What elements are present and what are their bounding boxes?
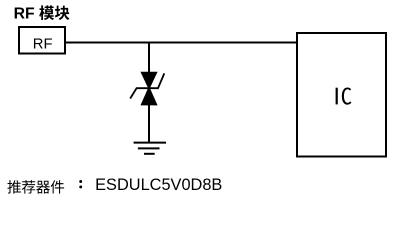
svg-text:RF: RF bbox=[14, 6, 35, 23]
svg-text:RF: RF bbox=[33, 36, 53, 52]
svg-text:ESDULC5V0D8B: ESDULC5V0D8B bbox=[95, 176, 222, 194]
